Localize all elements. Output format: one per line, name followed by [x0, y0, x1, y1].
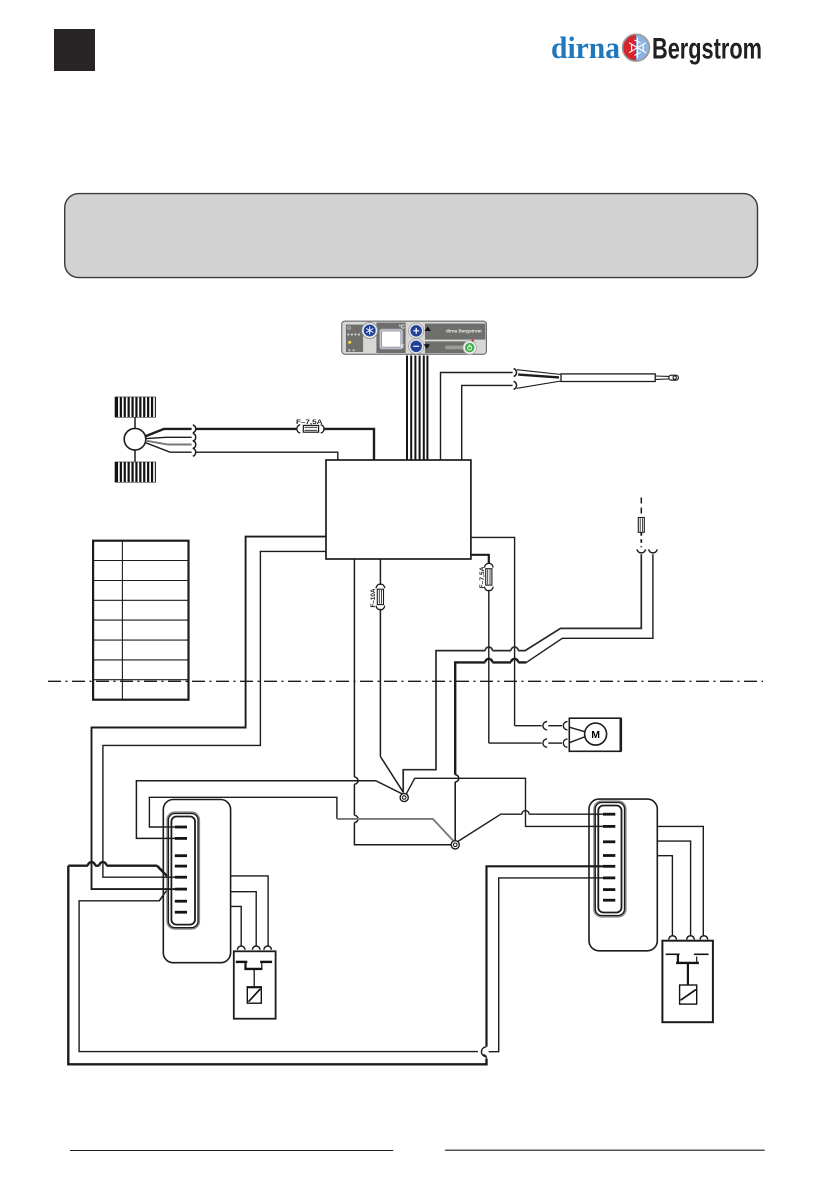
fan connector terminals	[193, 425, 196, 456]
wire junction ring A to right pin2	[406, 778, 603, 826]
wire right pin5 to bottom joint	[487, 866, 604, 1046]
wire stubs into right block pins	[588, 814, 603, 878]
black corner square	[54, 29, 95, 71]
fan bottom	[115, 462, 156, 483]
wire grey to junction ring B	[337, 819, 454, 841]
grey pill label	[445, 346, 464, 350]
fuse F-7,5A (clutch circuit, vertical)	[471, 555, 493, 591]
svg-text:dirna Bergstrom: dirna Bergstrom	[446, 328, 482, 333]
wire earth loop thick to left pin5	[68, 862, 486, 1064]
wire battery 1 to junction ring A	[403, 554, 641, 792]
fan top	[115, 397, 156, 418]
aux motor M	[569, 718, 621, 751]
svg-text:F–10A: F–10A	[370, 588, 377, 607]
temperature probe	[517, 370, 678, 389]
power button	[471, 340, 474, 343]
wire battery 2 to junction ring B	[455, 554, 653, 840]
footer rule right	[445, 1149, 765, 1151]
cab partition centreline	[48, 680, 763, 682]
svg-text:F–7,5A: F–7,5A	[480, 566, 486, 589]
wire stubs into left block pins	[157, 827, 176, 901]
wire fan return to box	[196, 452, 338, 460]
right connector block X2	[589, 799, 657, 951]
up down arrows	[425, 326, 431, 331]
left block to relay wires	[231, 876, 269, 946]
wire box to sensor lead 1	[441, 373, 513, 460]
right block to relay wires	[657, 826, 703, 935]
fan lead 4	[146, 443, 192, 453]
fuse F-10A (vertical)	[370, 559, 385, 757]
footer rule left	[70, 1150, 393, 1152]
fuse F-7,5A (fan circuit)	[296, 419, 324, 433]
wire box to compressor clutch line	[471, 537, 515, 725]
relay K1	[234, 946, 276, 1019]
wire fuse to motor lead	[488, 590, 490, 743]
wire left pin2 riser to junction ring A	[136, 781, 402, 839]
left connector block X1	[163, 800, 230, 963]
wire fuse to control box	[323, 429, 374, 460]
evaporator fan unit B1	[115, 397, 156, 483]
panel left LEDs	[348, 326, 351, 329]
bottom connector joint	[481, 1047, 486, 1059]
wire fuse F-10A to junction ring A	[380, 757, 403, 792]
fan lead 3	[146, 441, 192, 445]
control unit box	[326, 460, 471, 559]
battery feed dashed with fuse	[637, 498, 657, 553]
svg-text:dirna: dirna	[551, 30, 620, 65]
wire right pin6 to bottom joint	[489, 878, 603, 1052]
left block pins	[175, 826, 187, 914]
right block pins	[603, 813, 615, 902]
fan lead 2	[146, 437, 192, 438]
snowflake button	[362, 323, 378, 339]
plus button	[409, 323, 424, 338]
wire box to left connector pin6	[92, 537, 327, 890]
wire junction ring B to right pin1	[458, 811, 603, 842]
relay K2	[662, 936, 713, 1023]
wire fan feed to fuse	[196, 428, 296, 430]
display	[380, 329, 403, 349]
fan lead 1	[146, 429, 192, 436]
aux motor M feed wires	[489, 722, 568, 748]
svg-text:Bergstrom: Bergstrom	[652, 33, 762, 66]
minus button	[409, 339, 424, 354]
svg-text:M: M	[591, 729, 600, 741]
logo globe icon	[623, 34, 650, 61]
sensor connector terminals	[514, 369, 517, 377]
wire box to left connector pin5	[103, 551, 326, 877]
legend table	[93, 541, 188, 700]
grey title box	[65, 194, 758, 278]
control panel U1	[342, 321, 487, 354]
svg-text:°F: °F	[399, 345, 405, 351]
ribbon cable to panel	[407, 356, 427, 460]
fan motor body	[134, 418, 136, 429]
wire left pin1 riser	[149, 797, 337, 827]
wire left pin6 lower riser	[79, 891, 478, 1052]
wire box bottom to junction ring B	[354, 559, 451, 845]
wire box to sensor lead 2	[462, 385, 513, 459]
junction ring A	[400, 793, 408, 801]
svg-text:°C: °C	[399, 324, 405, 330]
junction ring B	[451, 841, 459, 849]
